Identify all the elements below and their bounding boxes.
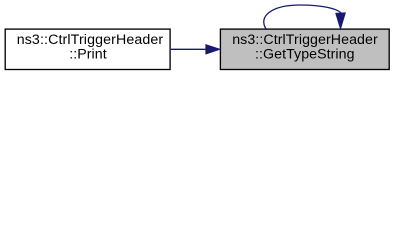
node Node1 ns3::CtrlTriggerHeader::GetTypeString xyxy=(220,29,389,69)
svg-text:::Print: ::Print xyxy=(69,47,106,63)
self-loop edge GetTypeString to GetTypeString xyxy=(264,5,346,29)
svg-text:ns3::CtrlTriggerHeader: ns3::CtrlTriggerHeader xyxy=(232,32,378,48)
svg-text:ns3::CtrlTriggerHeader: ns3::CtrlTriggerHeader xyxy=(17,32,164,48)
edge Print to GetTypeString xyxy=(171,45,220,54)
node Node2 ns3::CtrlTriggerHeader::Print xyxy=(5,29,170,69)
svg-text:::GetTypeString: ::GetTypeString xyxy=(255,47,354,63)
